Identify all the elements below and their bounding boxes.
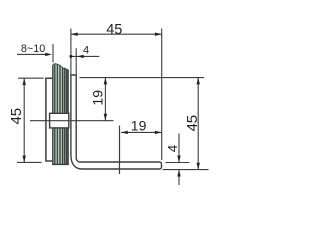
svg-text:45: 45 xyxy=(106,22,122,38)
svg-text:4: 4 xyxy=(165,145,180,152)
svg-text:45: 45 xyxy=(8,108,25,125)
svg-text:8~10: 8~10 xyxy=(21,43,45,55)
svg-text:19: 19 xyxy=(131,118,147,134)
svg-text:4: 4 xyxy=(83,45,89,57)
svg-text:45: 45 xyxy=(184,115,201,132)
svg-text:19: 19 xyxy=(89,90,105,106)
